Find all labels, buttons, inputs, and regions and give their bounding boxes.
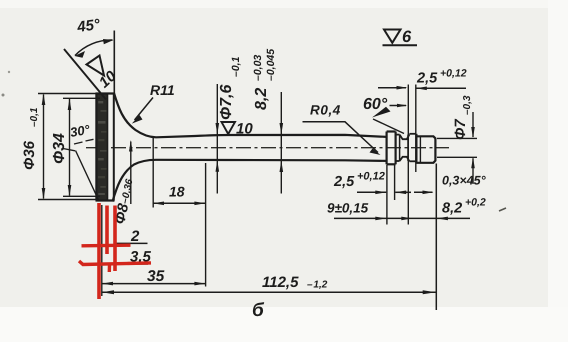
- svg-text:0,3×45°: 0,3×45°: [442, 174, 487, 188]
- red annotation vertical line long: [97, 203, 101, 299]
- speck left: [2, 94, 5, 97]
- keeper groove upper wall: [400, 134, 410, 139]
- tip collar right step: [395, 132, 397, 165]
- svg-text:+0,12: +0,12: [357, 171, 385, 183]
- dim 9 right-pointing arrow: [375, 217, 386, 221]
- dim 8.2 upper line: [280, 92, 282, 194]
- dim 35 left extension: [101, 205, 103, 296]
- dim phi34 bottom extension line: [63, 195, 100, 197]
- 45 deg dimension arc: [75, 40, 113, 56]
- svg-text:9±0,15: 9±0,15: [327, 201, 369, 216]
- dim 3.5 underline: [125, 263, 148, 265]
- svg-text:45°: 45°: [75, 16, 102, 36]
- dim phi36 top arrow: [42, 94, 46, 106]
- svg-text:Φ34: Φ34: [51, 133, 68, 164]
- shared extension line at x=205.6: [205, 163, 207, 287]
- dim 18 left arrow: [153, 202, 164, 206]
- svg-text:– 1,2: – 1,2: [307, 280, 328, 291]
- svg-text:18: 18: [169, 184, 185, 200]
- dim 2.5 bottom right-pointing arrow: [375, 191, 386, 195]
- dim 2.5 top shaft right: [417, 87, 467, 89]
- svg-text:8,2: 8,2: [253, 88, 270, 110]
- dim 8.2 lower arrow: [280, 161, 284, 173]
- svg-text:2: 2: [130, 228, 140, 245]
- 45 arc left arrow: [75, 51, 86, 58]
- dim phi7.6 upper line: [216, 84, 218, 194]
- dim phi7 lower ext line: [437, 156, 477, 158]
- svg-text:–0,045: –0,045: [265, 49, 277, 81]
- dim phi7.6 upper arrow: [216, 123, 220, 135]
- tip collar left step: [386, 132, 388, 165]
- svg-text:6: 6: [402, 28, 412, 46]
- svg-text:60°: 60°: [363, 96, 388, 113]
- tip cap left edge: [415, 134, 417, 163]
- tip collar bottom edge: [387, 163, 396, 165]
- svg-text:+0,2: +0,2: [465, 197, 486, 209]
- svg-text:2,5: 2,5: [416, 71, 438, 87]
- ext line groove left (up): [407, 85, 409, 225]
- ext line tip step down: [386, 165, 388, 225]
- 60 deg horizontal arrow: [397, 104, 407, 107]
- dim 2.5 bottom shaft left: [357, 191, 386, 193]
- dim phi36 bottom arrow: [42, 188, 46, 200]
- 30 deg leader dash 2: [86, 139, 94, 141]
- dim phi7 up arrow: [471, 157, 475, 168]
- label 2.5+0.12 top: [416, 68, 467, 87]
- label phi34: [51, 133, 68, 164]
- 45 arc right arrow: [103, 39, 114, 44]
- R11 leader line: [135, 98, 154, 121]
- label phi7-0.3: [452, 95, 473, 140]
- tip cap outline with chamfered face: [416, 136, 435, 163]
- svg-text:2,5: 2,5: [333, 174, 355, 190]
- 60 deg leader arrow: [372, 107, 391, 118]
- dim phi7 lower shaft: [472, 158, 474, 184]
- dim 112.5 shaft: [102, 291, 436, 293]
- ext line groove right (up): [415, 85, 417, 173]
- groove right edge line: [407, 135, 409, 161]
- head top edge: [96, 92, 115, 94]
- dim 9 middle arrow: [401, 217, 412, 221]
- 60 deg angle reference line: [373, 119, 404, 134]
- dim 35 left arrow: [102, 282, 113, 286]
- tip face extension line down: [435, 164, 437, 311]
- R11 arrow: [132, 115, 143, 124]
- dim phi7 upper shaft: [472, 112, 474, 137]
- overall roughness mark: [383, 28, 418, 46]
- red annotation vertical line 2: [105, 206, 109, 255]
- dim 2.5 bottom shaft right: [395, 191, 411, 193]
- valve head hatched seat band: [98, 94, 108, 201]
- svg-text:10: 10: [236, 121, 253, 138]
- label phi36: [21, 107, 40, 170]
- dim phi34 dimension line: [69, 99, 71, 196]
- dim phi36 top extension line: [38, 93, 97, 95]
- dim phi36 dimension line: [43, 95, 45, 199]
- head band right line: [107, 94, 109, 201]
- label phi7.6: [218, 56, 242, 120]
- dim 8.2 upper arrow: [280, 123, 284, 135]
- svg-text:–0,03: –0,03: [252, 55, 264, 81]
- dim 35 right arrow: [194, 282, 205, 286]
- 30 deg leader tick: [63, 149, 75, 151]
- red tick below: [108, 265, 112, 273]
- svg-text:R11: R11: [150, 82, 175, 98]
- dim 18 left extension: [152, 137, 154, 208]
- dim phi8 up arrow: [129, 140, 133, 152]
- svg-text:Φ7: Φ7: [452, 119, 469, 140]
- dim phi8 line: [130, 142, 132, 205]
- roughness mark on stem: [222, 121, 254, 138]
- stem lower profile with fillet: [113, 160, 387, 202]
- dim 8.2 left-pointing arrow: [437, 217, 448, 221]
- 60 deg horizontal shaft: [390, 105, 407, 107]
- land after groove bottom: [409, 160, 416, 162]
- head bottom edge: [96, 199, 115, 201]
- svg-text:–0,1: –0,1: [29, 107, 40, 127]
- R0.4 leader shelf: [303, 122, 379, 153]
- 30 deg angle line: [76, 151, 100, 202]
- label 8.2 tolerances: [252, 49, 277, 110]
- valve head face line (left edge): [95, 94, 97, 201]
- label 112.5: [262, 274, 328, 291]
- svg-text:Φ36: Φ36: [21, 140, 38, 170]
- svg-text:Φ7,6: Φ7,6: [218, 85, 235, 121]
- ext line collar right down: [394, 165, 396, 200]
- red annotation horizontal line upper: [82, 243, 131, 247]
- dim phi7 down arrow: [471, 127, 475, 138]
- dim phi7.6 lower arrow: [216, 160, 220, 172]
- dim 2.5 bottom left-pointing arrow: [395, 191, 406, 195]
- red annotation vertical line 3: [113, 206, 117, 272]
- dim 2 underline: [114, 242, 148, 244]
- speck upper left: [8, 71, 10, 73]
- dim phi34 bottom arrow: [68, 185, 72, 196]
- 45 deg chamfer extension line: [64, 49, 106, 100]
- label phi8-0.36: [111, 177, 137, 226]
- dim 2.5 top shaft left: [378, 87, 406, 89]
- tip collar top edge: [387, 130, 396, 132]
- svg-text:б: б: [252, 300, 265, 321]
- svg-text:R0,4: R0,4: [310, 103, 341, 118]
- svg-text:–0,1: –0,1: [230, 56, 242, 77]
- dim phi34 top extension line: [63, 97, 100, 99]
- svg-text:8,2: 8,2: [442, 201, 462, 217]
- land between collar and groove bottom: [396, 160, 400, 162]
- 30 deg leader dash 1: [74, 142, 83, 144]
- dim 9 shaft: [334, 217, 470, 219]
- centerline: [86, 147, 449, 149]
- svg-text:35: 35: [147, 268, 165, 285]
- dim 18 shaft: [153, 202, 206, 204]
- dim 0.3x45 shaft: [414, 191, 433, 193]
- dim 2.5 top right arrow: [416, 87, 427, 91]
- svg-text:+0,12: +0,12: [440, 68, 467, 80]
- dim phi34 top arrow: [68, 98, 72, 110]
- dim 35 shaft: [102, 283, 206, 285]
- dim 112.5 left arrow: [102, 290, 114, 294]
- dim 18 right arrow: [194, 202, 205, 206]
- R0.4 arrow: [370, 149, 381, 156]
- dim 0.3x45 arrow: [423, 191, 434, 195]
- dim 2.5 top left arrow: [397, 86, 408, 90]
- dim phi7 upper ext line: [437, 137, 477, 139]
- vertical extension line at head corner: [113, 31, 115, 100]
- small tick bottom right: [499, 208, 506, 211]
- svg-text:112,5: 112,5: [262, 274, 299, 291]
- label 2.5+0.12 bottom: [333, 171, 385, 191]
- red annotation horizontal line lower: [79, 261, 151, 265]
- land between collar and groove top: [396, 134, 400, 136]
- roughness mark on chamfer: [87, 56, 105, 76]
- land after groove top: [409, 133, 416, 135]
- tip cap chamfer inner line: [419, 136, 421, 163]
- dim phi36 bottom extension line: [38, 199, 97, 201]
- stem upper profile with R11 fillet: [114, 93, 387, 138]
- svg-text:–0,3: –0,3: [462, 95, 473, 115]
- groove left edge line: [399, 135, 401, 161]
- keeper groove lower wall: [400, 157, 410, 162]
- dim 112.5 right arrow: [423, 290, 436, 294]
- head inner line: [113, 93, 115, 201]
- label 8.2+0.2: [442, 197, 486, 217]
